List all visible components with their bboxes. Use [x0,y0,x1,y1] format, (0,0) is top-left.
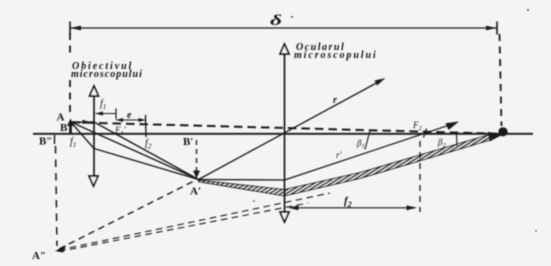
object arrow AB [67,119,74,135]
f2 dimension below ocular [288,205,417,210]
svg-text:A′: A′ [190,186,201,198]
e dimension [116,118,146,122]
svg-text:microscopului: microscopului [294,50,378,61]
F2 left focal tick [145,115,148,137]
dashed beam back-extension lower [59,203,308,252]
dashed dropline from delta to eye [500,34,502,126]
f2 dimension label [344,195,352,209]
ray from A parallel to axis [72,120,94,124]
lower ray lens to A' [94,149,199,180]
caption: Obiectivul microscopului [71,61,143,80]
svg-text:B: B [60,122,68,134]
optical axis [33,133,533,135]
objective lens (double arrow) [89,86,99,186]
f2 left focal label [145,138,152,151]
angle beta1 with tick [356,131,370,151]
ray r: A' through ocular centre [199,78,386,180]
delta label [270,13,282,29]
central ray A through objective centre to A' [72,123,199,180]
dashed beam back-extension upper [59,193,330,250]
svg-text:B″: B″ [39,136,52,148]
hatched beam A' to eye [199,132,503,196]
refracted ray r' through F2 [285,122,460,181]
svg-text:e: e [127,110,132,121]
svg-text:δ: δ [270,13,282,29]
lower ray A to lens [72,124,94,149]
A'' point arrowhead [55,246,66,253]
e label [127,110,132,121]
scan specks [253,9,537,232]
f1 label [100,99,106,112]
intermediate image B'A' dashed with arrowhead [193,140,200,179]
caption: Ocularul microscopului [294,42,378,61]
angle beta2 with tick [437,135,457,150]
f1 object-side focal label [70,137,76,150]
svg-text:microscopului: microscopului [71,69,143,80]
svg-text:B′: B′ [183,136,193,148]
eye point [498,127,507,136]
intermediate image label B' [183,136,193,148]
svg-text:A″: A″ [32,250,46,262]
label A'' [32,250,46,262]
label B'' with axis tick [39,135,55,148]
dashed construction line A'' to A' [59,180,197,250]
label r [333,95,337,106]
delta dimension line [70,22,497,35]
ocular lens (double arrow) [280,44,289,222]
F1' focal label [114,125,127,137]
dashed dropline from delta to object A [69,33,71,116]
label A' [190,186,201,198]
label F2 on axis [412,120,427,138]
f1 dimension [96,109,117,120]
horizontal ray A' to ocular [199,179,285,182]
refracted ray to A' [94,122,199,180]
label A [57,112,65,124]
dashed dropline at F2 [419,141,421,212]
label B [60,122,68,134]
dashed ray A to F2 [72,122,496,133]
svg-text:r: r [333,95,337,106]
label r' [336,150,343,160]
final virtual image B''A'' dashed [56,146,58,246]
